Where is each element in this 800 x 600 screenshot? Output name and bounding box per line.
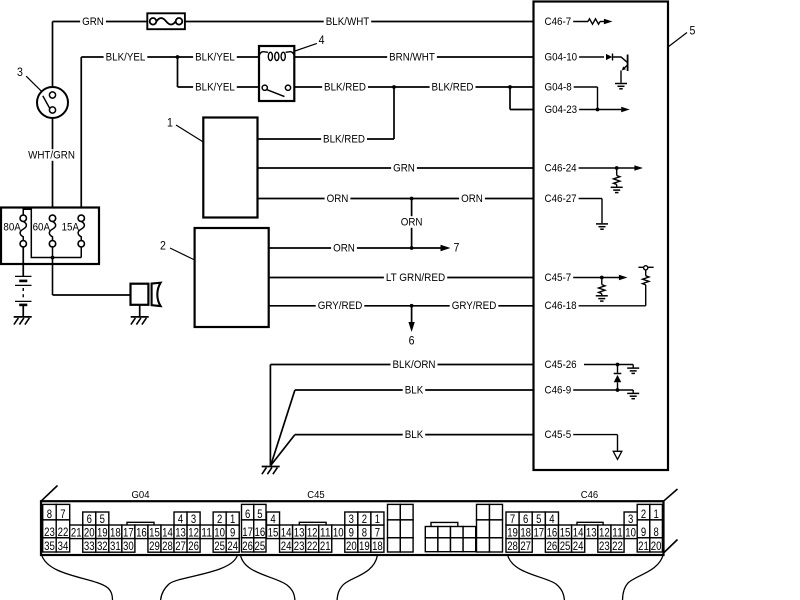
svg-text:15A: 15A (62, 222, 80, 234)
svg-text:35: 35 (44, 539, 55, 553)
svg-text:3: 3 (628, 512, 634, 526)
svg-text:19: 19 (97, 526, 108, 540)
svg-text:14: 14 (573, 526, 584, 540)
svg-text:19: 19 (359, 539, 370, 553)
svg-text:1: 1 (230, 512, 236, 526)
svg-text:4: 4 (549, 512, 555, 526)
svg-text:1: 1 (375, 512, 381, 526)
svg-text:25: 25 (560, 539, 571, 553)
svg-text:BRN/WHT: BRN/WHT (389, 51, 435, 63)
svg-text:10: 10 (625, 526, 636, 540)
svg-text:10: 10 (333, 526, 344, 540)
svg-text:GRN: GRN (82, 16, 104, 28)
svg-text:60A: 60A (33, 222, 51, 234)
svg-text:G04-23: G04-23 (545, 104, 578, 116)
svg-text:2: 2 (217, 512, 223, 526)
svg-text:12: 12 (599, 526, 610, 540)
svg-text:33: 33 (84, 539, 95, 553)
svg-text:21: 21 (638, 539, 649, 553)
svg-text:16: 16 (255, 525, 266, 539)
svg-text:BLK/YEL: BLK/YEL (195, 81, 235, 93)
svg-text:C46-9: C46-9 (545, 384, 572, 396)
svg-text:2: 2 (362, 512, 368, 526)
svg-text:9: 9 (349, 526, 355, 540)
svg-text:22: 22 (58, 525, 69, 539)
svg-text:14: 14 (281, 526, 292, 540)
svg-text:24: 24 (573, 539, 584, 553)
svg-text:C46-18: C46-18 (545, 300, 577, 312)
svg-text:21: 21 (320, 539, 331, 553)
svg-text:5: 5 (100, 512, 106, 526)
svg-text:BLK/ORN: BLK/ORN (393, 359, 436, 371)
svg-text:20: 20 (651, 539, 662, 553)
svg-text:15: 15 (268, 526, 279, 540)
svg-text:3: 3 (349, 512, 355, 526)
svg-text:BLK/YEL: BLK/YEL (106, 51, 146, 63)
svg-text:6: 6 (245, 507, 251, 521)
svg-text:24: 24 (281, 539, 292, 553)
svg-text:2: 2 (160, 239, 166, 253)
svg-text:8: 8 (47, 507, 53, 521)
svg-text:C46-7: C46-7 (545, 16, 572, 28)
svg-text:8: 8 (653, 525, 659, 539)
svg-text:28: 28 (162, 539, 173, 553)
svg-text:C45: C45 (307, 490, 325, 501)
svg-text:15: 15 (560, 526, 571, 540)
svg-text:7: 7 (510, 512, 516, 526)
svg-text:7: 7 (375, 526, 381, 540)
svg-text:17: 17 (533, 526, 544, 540)
svg-text:ORN: ORN (401, 216, 423, 228)
svg-text:15: 15 (149, 526, 160, 540)
svg-text:29: 29 (149, 539, 160, 553)
svg-text:18: 18 (110, 526, 121, 540)
svg-text:BLK/WHT: BLK/WHT (326, 16, 370, 28)
svg-text:25: 25 (214, 539, 225, 553)
svg-text:4: 4 (178, 512, 184, 526)
svg-text:26: 26 (242, 539, 253, 553)
svg-text:14: 14 (162, 526, 173, 540)
svg-text:GRN: GRN (393, 162, 415, 174)
svg-text:26: 26 (188, 539, 199, 553)
svg-text:3: 3 (17, 65, 23, 79)
svg-text:BLK/RED: BLK/RED (323, 133, 365, 145)
svg-text:6: 6 (523, 512, 529, 526)
svg-text:9: 9 (641, 525, 647, 539)
svg-text:8: 8 (362, 526, 368, 540)
svg-text:23: 23 (44, 525, 55, 539)
svg-text:BLK/RED: BLK/RED (432, 81, 474, 93)
svg-text:5: 5 (257, 507, 263, 521)
svg-text:16: 16 (136, 526, 147, 540)
svg-text:20: 20 (84, 526, 95, 540)
svg-text:5: 5 (690, 24, 696, 38)
svg-text:WHT/GRN: WHT/GRN (28, 149, 75, 161)
svg-text:20: 20 (346, 539, 357, 553)
svg-text:C45-26: C45-26 (545, 359, 577, 371)
svg-text:7: 7 (454, 241, 460, 255)
svg-text:31: 31 (110, 539, 121, 553)
svg-text:C45-5: C45-5 (545, 429, 572, 441)
svg-text:LT GRN/RED: LT GRN/RED (386, 272, 445, 284)
svg-text:27: 27 (520, 539, 531, 553)
svg-text:34: 34 (58, 539, 69, 553)
svg-text:17: 17 (242, 525, 253, 539)
svg-text:13: 13 (175, 526, 186, 540)
svg-text:16: 16 (547, 526, 558, 540)
svg-text:ORN: ORN (327, 193, 349, 205)
svg-text:12: 12 (307, 526, 318, 540)
svg-text:BLK: BLK (405, 429, 424, 441)
svg-text:12: 12 (188, 526, 199, 540)
svg-text:C46-27: C46-27 (545, 193, 577, 205)
svg-text:11: 11 (201, 526, 212, 540)
svg-text:25: 25 (255, 539, 266, 553)
svg-text:6: 6 (87, 512, 93, 526)
svg-text:21: 21 (71, 526, 82, 540)
svg-text:18: 18 (372, 539, 383, 553)
svg-text:22: 22 (307, 539, 318, 553)
svg-text:1: 1 (653, 507, 659, 521)
svg-text:22: 22 (612, 539, 623, 553)
svg-text:13: 13 (294, 526, 305, 540)
svg-text:28: 28 (507, 539, 518, 553)
svg-text:GRY/RED: GRY/RED (452, 300, 497, 312)
svg-text:1: 1 (167, 116, 173, 130)
svg-text:G04-8: G04-8 (545, 81, 572, 93)
svg-text:26: 26 (547, 539, 558, 553)
svg-text:30: 30 (123, 539, 134, 553)
svg-text:18: 18 (520, 526, 531, 540)
svg-text:GRY/RED: GRY/RED (318, 300, 363, 312)
svg-text:BLK/YEL: BLK/YEL (195, 51, 235, 63)
svg-text:13: 13 (586, 526, 597, 540)
svg-text:6: 6 (409, 334, 415, 348)
svg-text:BLK: BLK (405, 384, 424, 396)
svg-text:4: 4 (270, 512, 276, 526)
svg-text:9: 9 (230, 526, 236, 540)
svg-text:23: 23 (294, 539, 305, 553)
svg-text:BLK/RED: BLK/RED (324, 81, 366, 93)
svg-text:24: 24 (227, 539, 238, 553)
svg-text:10: 10 (214, 526, 225, 540)
svg-text:C46-24: C46-24 (545, 162, 577, 174)
svg-text:23: 23 (599, 539, 610, 553)
svg-text:7: 7 (60, 507, 66, 521)
svg-text:27: 27 (175, 539, 186, 553)
svg-text:2: 2 (641, 507, 647, 521)
svg-text:C46: C46 (581, 490, 599, 501)
svg-text:ORN: ORN (333, 242, 355, 254)
svg-text:ORN: ORN (461, 193, 483, 205)
svg-text:5: 5 (536, 512, 542, 526)
svg-text:C45-7: C45-7 (545, 272, 572, 284)
svg-text:G04-10: G04-10 (545, 51, 578, 63)
svg-text:11: 11 (612, 526, 623, 540)
svg-text:3: 3 (191, 512, 197, 526)
svg-text:19: 19 (507, 526, 518, 540)
svg-text:11: 11 (320, 526, 331, 540)
svg-text:G04: G04 (132, 490, 150, 501)
svg-text:32: 32 (97, 539, 108, 553)
svg-text:4: 4 (319, 33, 325, 47)
svg-text:80A: 80A (3, 222, 21, 234)
svg-text:17: 17 (123, 526, 134, 540)
